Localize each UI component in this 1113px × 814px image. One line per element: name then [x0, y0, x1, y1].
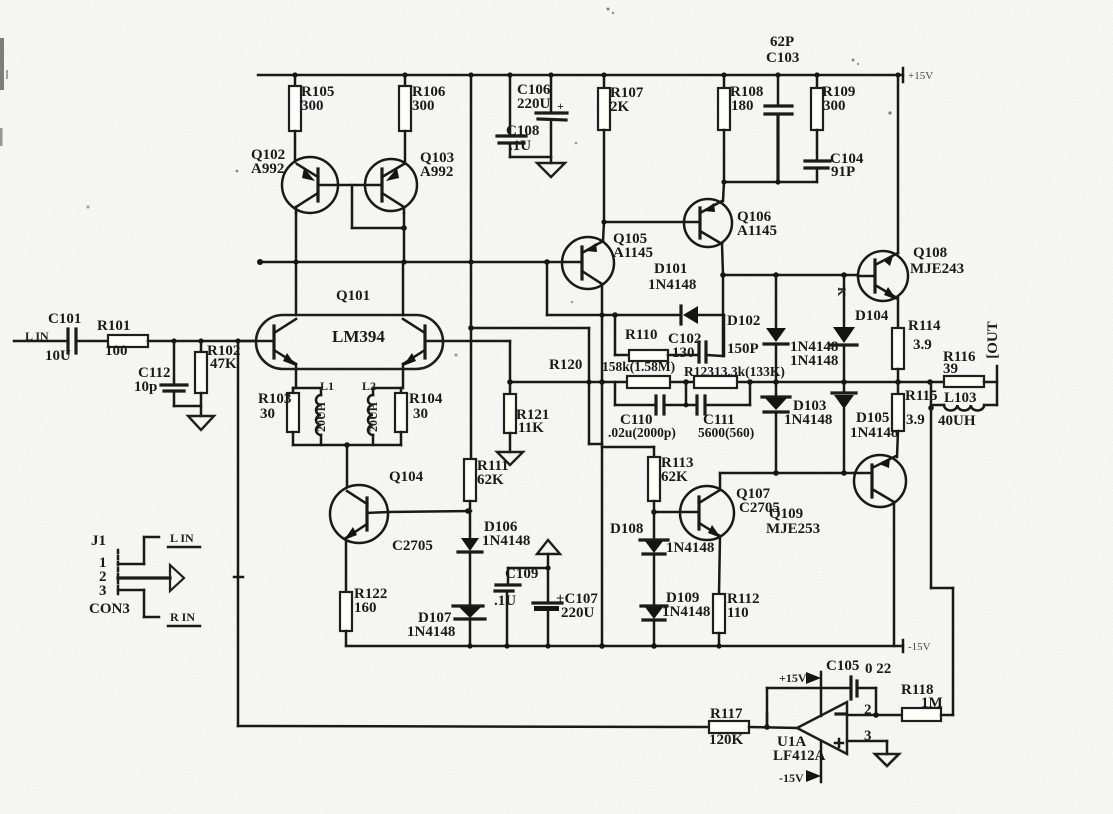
main mid row [507, 341, 944, 385]
svg-text:R104: R104 [409, 391, 443, 407]
svg-text:R115: R115 [905, 388, 938, 404]
svg-text:40UH: 40UH [938, 413, 976, 429]
svg-text:.02u(2000p): .02u(2000p) [608, 425, 676, 440]
svg-text:C108: C108 [506, 123, 539, 139]
svg-text:62K: 62K [477, 472, 504, 488]
+15V supply to op-amp [779, 671, 821, 716]
svg-text:2K: 2K [610, 99, 630, 115]
svg-text:3: 3 [99, 583, 107, 599]
svg-text:Q101: Q101 [336, 288, 370, 304]
svg-text:300: 300 [301, 98, 324, 114]
svg-text:R117: R117 [710, 706, 743, 722]
capacitor C103 [765, 75, 792, 182]
-15V bottom row [346, 640, 931, 653]
svg-text:R120: R120 [549, 357, 582, 373]
node row to Q105 base [257, 259, 562, 265]
diode D102 [727, 275, 838, 382]
svg-text:110: 110 [727, 605, 749, 621]
svg-text:130: 130 [672, 345, 695, 361]
diode D107 [407, 606, 485, 646]
svg-text:120K: 120K [709, 732, 744, 748]
svg-text:L1: L1 [320, 379, 334, 393]
resistor R108 [718, 75, 763, 182]
svg-text:3: 3 [864, 728, 872, 744]
svg-text:J1: J1 [91, 533, 106, 549]
wire Q105 emitter long column [599, 284, 605, 649]
svg-text:A992: A992 [251, 161, 284, 177]
svg-text:1N4148: 1N4148 [482, 533, 530, 549]
svg-text:.1U: .1U [509, 138, 531, 154]
connector J1 CON3 [89, 531, 200, 626]
svg-text:30: 30 [413, 406, 428, 422]
scan smudges [0, 8, 892, 357]
svg-text:C103: C103 [766, 50, 799, 66]
svg-text:R114: R114 [908, 318, 941, 334]
svg-text:158k(1.58M): 158k(1.58M) [602, 359, 675, 374]
op-amp pin2 row [847, 702, 902, 718]
resistor R115 [892, 382, 938, 457]
diode D109 [641, 590, 710, 646]
Q101 right half [403, 262, 510, 388]
resistor R104 [395, 388, 443, 445]
resistor R120 body [627, 376, 670, 388]
svg-text:[OUT: [OUT [985, 321, 1001, 359]
wire Q103 emitter to node row [403, 213, 406, 262]
transistor Q104 [330, 469, 433, 554]
ground below R121 [497, 452, 523, 465]
svg-text:+15V: +15V [908, 70, 933, 82]
capacitor C104 [805, 151, 864, 182]
resistor R107 [598, 75, 644, 222]
wire Q104 base row [388, 508, 471, 514]
resistor R102 [195, 341, 240, 416]
svg-text:62K: 62K [661, 469, 688, 485]
resistor R118 [901, 682, 953, 721]
svg-text:MJE243: MJE243 [910, 261, 964, 277]
+15V rail [258, 68, 933, 82]
-15V supply to op-amp [779, 741, 821, 785]
svg-text:K: K [835, 287, 849, 297]
svg-text:CON3: CON3 [89, 601, 130, 617]
diode D105 [832, 393, 898, 473]
inductor L101 [314, 379, 334, 445]
svg-text:.1U: .1U [494, 593, 516, 609]
svg-text:+15V: +15V [779, 671, 807, 685]
capacitor C108 [497, 75, 551, 157]
svg-text:300: 300 [823, 98, 846, 114]
svg-text:A1145: A1145 [613, 245, 653, 261]
svg-text:1N4148: 1N4148 [790, 353, 838, 369]
svg-text:MJE253: MJE253 [766, 521, 820, 537]
inductor L103 [928, 390, 997, 429]
svg-text:180: 180 [731, 98, 754, 114]
svg-text:220U: 220U [561, 605, 595, 621]
emitter T nodes [293, 387, 401, 390]
svg-text:10U: 10U [45, 348, 71, 364]
wire Q102 emitter to node row [295, 213, 298, 262]
transistor Q102 [251, 147, 338, 213]
svg-text:20UH: 20UH [366, 401, 380, 432]
resistor R114 [892, 298, 941, 382]
ground below R102 [188, 416, 214, 430]
capacitor C111 [664, 382, 754, 440]
svg-text:62P: 62P [770, 34, 794, 50]
svg-text:D101: D101 [654, 261, 687, 277]
resistor R122 [340, 538, 387, 646]
resistor R111 [464, 262, 509, 537]
wire Q102-Q103 base tie [318, 185, 407, 231]
svg-text:3.9: 3.9 [906, 412, 925, 428]
dual transistor Q101 LM394 body [256, 288, 443, 369]
svg-text:A1145: A1145 [737, 223, 777, 239]
wire Q107 base row [651, 509, 680, 515]
transistor Q108 [858, 245, 964, 301]
svg-text:220U: 220U [517, 96, 551, 112]
svg-text:100: 100 [105, 343, 128, 359]
svg-text:47K: 47K [210, 356, 237, 372]
svg-text:R12313.3k(133K): R12313.3k(133K) [684, 364, 785, 379]
svg-text:+: + [557, 99, 564, 113]
diode D108 [610, 521, 714, 606]
resistor R103 [258, 388, 299, 445]
wire Q105 collector to R107 node and Q106 base [601, 219, 684, 241]
diode D101 [547, 261, 724, 356]
resistor R112 [713, 536, 760, 646]
wire top vertical R111 column upper [470, 75, 473, 262]
resistor R113 [602, 447, 694, 540]
svg-text:L103: L103 [944, 390, 977, 406]
input L IN lead [14, 329, 67, 343]
svg-text:91P: 91P [831, 164, 855, 180]
svg-text:1N4148: 1N4148 [662, 604, 710, 620]
svg-text:D102: D102 [727, 313, 760, 329]
transistor Q106 [684, 199, 777, 247]
resistor R109 [811, 75, 855, 160]
transistor Q105 [562, 231, 653, 289]
svg-text:1M: 1M [921, 695, 943, 711]
svg-text:D104: D104 [855, 308, 889, 324]
up arrow above C107 [537, 540, 560, 602]
node row under R108/C103/C104 [721, 179, 817, 184]
svg-text:39: 39 [943, 361, 958, 377]
svg-text:D108: D108 [610, 521, 643, 537]
transistor Q109 [766, 455, 906, 537]
svg-text:-15V: -15V [908, 641, 931, 653]
op-amp pin3 to ground [847, 728, 899, 766]
svg-text:L IN: L IN [170, 531, 194, 545]
svg-text:300: 300 [412, 98, 435, 114]
svg-text:1N4148: 1N4148 [666, 540, 714, 556]
svg-text:11K: 11K [518, 420, 544, 436]
svg-text:D105: D105 [856, 410, 889, 426]
svg-text:Q108: Q108 [913, 245, 947, 261]
resistor R116 [943, 349, 997, 387]
capacitor C109 [494, 566, 548, 646]
svg-text:C101: C101 [48, 311, 81, 327]
transistor Q103 [365, 150, 454, 213]
capacitor C112 [134, 341, 201, 406]
svg-text:C2705: C2705 [392, 538, 433, 554]
svg-text:R101: R101 [97, 318, 130, 334]
diode D104 [831, 275, 889, 392]
svg-text:5600(560): 5600(560) [698, 425, 754, 440]
scan noise texture [0, 0, 1, 1]
wire Q108 collector to rail [897, 75, 900, 253]
resistor R121 [504, 382, 549, 452]
svg-text:LF412A: LF412A [773, 748, 826, 764]
resistor R105 [289, 75, 334, 162]
capacitor C106 [517, 75, 567, 157]
svg-text:R110: R110 [625, 327, 658, 343]
svg-text:20UH: 20UH [314, 401, 328, 432]
text 62P C103 [766, 34, 799, 66]
svg-text:150P: 150P [727, 341, 759, 357]
svg-text:1N4148: 1N4148 [407, 624, 455, 640]
emitter bottom rail [293, 442, 401, 487]
resistor R117 [238, 706, 797, 748]
resistor R101 [97, 318, 256, 359]
svg-text:R IN: R IN [170, 610, 195, 624]
svg-text:30: 30 [260, 406, 275, 422]
inductor L102 [362, 379, 380, 445]
svg-text:0 22: 0 22 [865, 661, 891, 677]
ground below C106/C108 [537, 157, 565, 177]
wire Q109 collector down [893, 502, 896, 646]
svg-text:Q104: Q104 [389, 469, 424, 485]
capacitor C107 [533, 591, 598, 646]
svg-text:3.9: 3.9 [913, 337, 932, 353]
feedback line to op-amp [931, 382, 953, 715]
svg-text:1N4148: 1N4148 [648, 277, 696, 293]
Q101 left half [238, 262, 296, 388]
svg-text:R103: R103 [258, 391, 291, 407]
capacitor C105 feedback [767, 658, 891, 727]
svg-text:1N4148: 1N4148 [784, 412, 832, 428]
svg-text:2: 2 [864, 702, 872, 718]
wire R120 loop rectangle [468, 325, 602, 444]
op-amp U1A LF412 [764, 702, 847, 764]
transistor Q107 [680, 486, 780, 540]
capacitor C101 [45, 311, 108, 364]
op-amp feedback column from input node [234, 341, 243, 726]
svg-text:L2: L2 [362, 379, 376, 393]
svg-text:C109: C109 [505, 566, 538, 582]
diode D103 [762, 382, 832, 473]
capacitor C110 [608, 382, 676, 440]
resistor R123 [684, 364, 785, 388]
svg-text:A992: A992 [420, 164, 453, 180]
wire Q106 emitter down / base row to Q108 [720, 244, 858, 356]
svg-text:-15V: -15V [779, 771, 804, 785]
svg-text:160: 160 [354, 600, 377, 616]
resistor R110 [602, 315, 697, 374]
svg-text:C105: C105 [826, 658, 859, 674]
wire output right stub / OUT label [985, 321, 1001, 405]
wire Q106 collector up [723, 182, 724, 201]
svg-text:C2705: C2705 [739, 500, 780, 516]
svg-text:10p: 10p [134, 379, 157, 395]
wire Q107 collector row [720, 470, 854, 490]
capacitor C102 [668, 331, 723, 362]
resistor R106 [399, 75, 446, 163]
diode D106 [458, 519, 530, 605]
svg-text:LM394: LM394 [332, 327, 385, 346]
svg-text:L IN: L IN [25, 329, 49, 343]
